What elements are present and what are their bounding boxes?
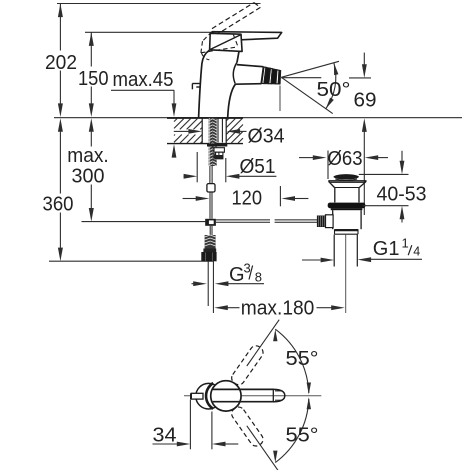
mounting nut: [214, 148, 224, 153]
svg-text:Ø63: Ø63: [328, 148, 363, 170]
dimension 69 extension: [349, 77, 371, 79]
top view cap circle: [211, 381, 241, 411]
aerator / mousseur: [261, 67, 266, 84]
50 degree arc: [326, 63, 336, 109]
dimension max.45 leader: [111, 89, 174, 91]
top view centerline: [184, 395, 321, 397]
svg-text:120: 120: [232, 188, 263, 210]
adapter nut: [201, 252, 216, 261]
lever blade solid: [212, 32, 281, 40]
deck hatching left upper: [174, 119, 177, 122]
svg-text:55°: 55°: [286, 348, 319, 370]
reference line rod reach (max.300): [82, 221, 206, 223]
spout bottom edge: [235, 83, 261, 86]
waste neck: [334, 188, 336, 203]
svg-text:34: 34: [153, 425, 177, 447]
spray line upper: [281, 61, 339, 77]
dimension 120 arrows: [183, 198, 197, 200]
pull rod upper: [209, 166, 211, 184]
spout top edge: [237, 65, 263, 67]
threaded adapter: [205, 235, 216, 249]
waste flange: [328, 180, 366, 182]
mounting washer: [207, 143, 227, 146]
waste dome cap: [334, 174, 359, 179]
waste body: [332, 210, 334, 229]
shank tube: [217, 119, 219, 143]
top view lever dashed up 55: [229, 343, 265, 387]
temperature stop tab: [192, 83, 200, 85]
svg-text:3: 3: [244, 261, 251, 276]
waste ring: [335, 229, 359, 231]
deck hole left wall: [201, 118, 203, 144]
svg-text:1: 1: [402, 236, 409, 251]
threaded shank: [209, 118, 217, 166]
svg-text:G: G: [229, 264, 245, 286]
svg-text:4: 4: [413, 245, 420, 259]
spray axis line: [281, 77, 321, 79]
reference line top of lever (150): [85, 31, 213, 33]
lever blade dashed (raised): [212, 3, 254, 29]
pull rod middle: [209, 192, 211, 219]
pull rod lower: [209, 226, 211, 235]
reference line top of lifted lever (202): [57, 3, 261, 5]
pop-up rod left segment: [216, 219, 270, 221]
dimension 202 line: [59, 4, 61, 51]
deck hatching right: [227, 119, 229, 121]
spout underside curve: [228, 84, 236, 117]
svg-text:max.: max.: [67, 145, 109, 167]
dimension Ø51 extension lines: [196, 152, 198, 182]
waste tailpipe: [333, 235, 335, 267]
rod knob connector: [326, 215, 334, 228]
55deg extension line upper: [247, 320, 279, 366]
deck hatching left lower: [174, 135, 175, 136]
dimension 40-53 ext top: [359, 173, 409, 175]
deck bottom line: [167, 143, 243, 145]
top view body circle: [196, 383, 222, 409]
dimension G1-1/4 arrows: [302, 259, 321, 261]
dimension max.300 line: [90, 123, 92, 147]
dimension 40-53 line: [401, 151, 403, 169]
dimension Ø63 extension left: [327, 151, 329, 180]
aerator drop line: [279, 86, 281, 112]
faucet body left edge: [199, 50, 210, 117]
svg-text:max.180: max.180: [241, 298, 314, 320]
svg-text:55°: 55°: [286, 425, 319, 447]
svg-text:300: 300: [72, 166, 105, 188]
dimension G3/8 arrows: [192, 283, 197, 285]
top view crescent arc: [206, 383, 213, 409]
spout body junction arc: [233, 62, 237, 83]
reference line hose end (360): [49, 260, 214, 262]
deck hole right wall: [225, 118, 227, 144]
top view aerator stub: [191, 393, 203, 399]
spray line lower: [281, 77, 332, 113]
svg-text:202: 202: [45, 52, 77, 74]
waste flange taper: [329, 181, 335, 187]
55deg arc lower: [275, 399, 309, 463]
svg-text:150: 150: [78, 68, 109, 90]
svg-text:G1: G1: [373, 238, 400, 260]
cartridge housing: [210, 33, 243, 51]
svg-text:69: 69: [354, 90, 377, 112]
svg-text:Ø51: Ø51: [240, 156, 276, 178]
waste seal ring: [328, 203, 366, 209]
svg-text:360: 360: [43, 194, 74, 216]
dimension 34 extensions: [189, 400, 191, 450]
dimension 360 line: [59, 123, 61, 194]
svg-text:8: 8: [255, 270, 262, 285]
dimension max.180 line: [214, 305, 228, 310]
rod knob knurled: [317, 216, 326, 228]
dimension 120 extension line: [279, 186, 281, 206]
dimension 34 arrows: [153, 443, 178, 445]
svg-text:Ø34: Ø34: [248, 126, 285, 148]
pop-up rod right segment: [275, 219, 317, 221]
dimension 69 line: [363, 53, 365, 73]
svg-text:max.45: max.45: [113, 69, 174, 91]
top view lever: [213, 388, 274, 390]
dimension 150 line: [90, 32, 92, 66]
top view lever dashed down 55: [229, 405, 265, 449]
dimension Ø63 arrows: [299, 157, 314, 159]
faucet body right edge: [237, 51, 239, 62]
deck thick top line: [167, 117, 243, 119]
dimension 40-53 ext bottom: [363, 205, 409, 207]
deck / mounting surface line: [54, 117, 462, 119]
pull rod connector: [207, 184, 215, 192]
connection pipe: [207, 261, 209, 306]
svg-text:50°: 50°: [317, 79, 351, 101]
dimension Ø34 arrows: [174, 130, 189, 132]
cartridge housing dashed (raised): [203, 32, 212, 42]
55deg arc upper: [275, 329, 309, 393]
dimension max.45 arrows: [172, 103, 177, 117]
waste axis line: [345, 235, 347, 313]
svg-text:40-53: 40-53: [377, 184, 427, 206]
55deg extension line lower: [247, 426, 279, 472]
rod junction clamp: [205, 219, 216, 226]
dimension Ø51 arrows: [184, 175, 191, 177]
